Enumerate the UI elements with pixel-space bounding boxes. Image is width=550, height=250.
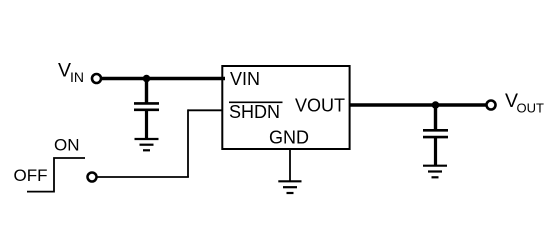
pin label SHDN with overline [229, 102, 283, 122]
wire VOUT output [350, 103, 486, 107]
wire C2 bottom lead [434, 137, 437, 166]
svg-text:OFF: OFF [14, 166, 48, 185]
terminal VIN [92, 74, 101, 83]
capacitor C2 [423, 130, 448, 137]
terminal SHDN control [88, 173, 97, 182]
svg-text:ON: ON [54, 136, 80, 155]
wire GND pin lead [289, 149, 291, 181]
ground G2 [423, 166, 447, 178]
svg-text:VOUT: VOUT [295, 96, 345, 116]
label V_OUT [505, 90, 544, 115]
wire SHDN vertical [187, 109, 189, 177]
op-amp regulator U1 box [222, 66, 349, 149]
junction output node [432, 101, 440, 109]
wire SHDN control horizontal [98, 176, 189, 178]
ground G1 [135, 139, 159, 150]
wire C1 bottom lead [145, 110, 148, 139]
svg-text:VIN: VIN [230, 69, 260, 89]
svg-text:OUT: OUT [517, 101, 545, 116]
ground G3 [278, 181, 301, 193]
wire C1 top lead [145, 79, 148, 105]
svg-text:GND: GND [269, 128, 309, 148]
wire SHDN horizontal to box [188, 109, 223, 111]
svg-text:IN: IN [70, 69, 84, 85]
svg-text:SHDN: SHDN [229, 102, 280, 122]
wire VIN input [102, 77, 225, 81]
ON/OFF control step waveform [27, 158, 85, 192]
junction input node [143, 75, 151, 83]
terminal VOUT [487, 101, 496, 110]
capacitor C1 [134, 103, 159, 109]
label V_IN [58, 60, 84, 85]
wire C2 top lead [434, 105, 437, 131]
